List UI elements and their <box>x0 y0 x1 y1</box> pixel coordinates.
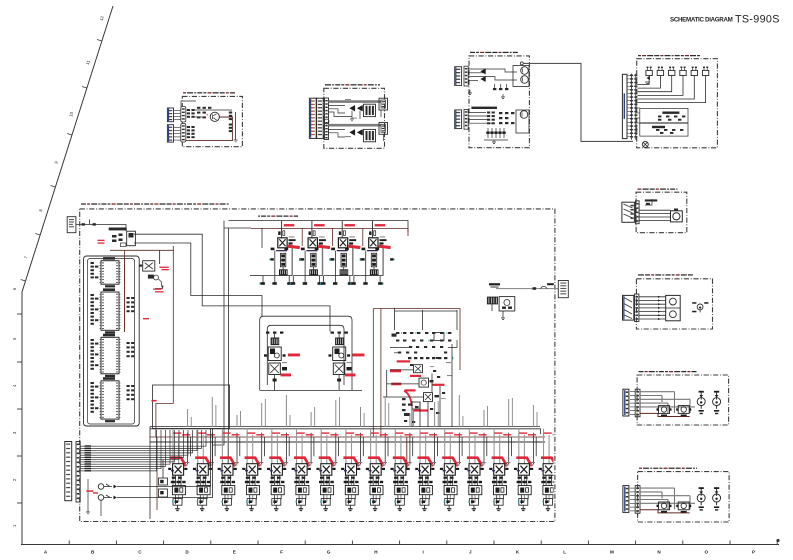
fan wires <box>639 199 670 220</box>
extra comps first bank cell <box>159 460 168 497</box>
transistor pair CNAB <box>676 502 691 513</box>
output caps group B <box>229 124 232 133</box>
block key jack unit border <box>637 375 729 425</box>
red value bar 1 <box>397 360 410 362</box>
jumper arc <box>540 286 547 288</box>
svg-text:4: 4 <box>12 384 17 387</box>
inner enclosure around driver cells <box>267 325 344 385</box>
speaker box <box>666 295 681 320</box>
IC1 regulator block <box>100 257 121 287</box>
fan label resistor <box>646 203 650 205</box>
diode D303 <box>350 130 355 135</box>
red mark above enclosure <box>143 318 157 402</box>
red value bar 2 <box>390 369 401 372</box>
maroon drop to cell 10 <box>406 437 408 470</box>
wires CN201 to pins <box>174 111 181 141</box>
staircase wire from S606 <box>637 76 705 103</box>
maroon drop at mixer 2 <box>332 228 334 246</box>
maroon branch right <box>372 309 374 437</box>
red value by crystal <box>159 267 168 271</box>
wire from CN101 <box>76 225 126 232</box>
switch S603 <box>669 67 675 76</box>
svg-text:A: A <box>44 550 48 555</box>
maroon branch to left ICs <box>124 250 126 332</box>
cluster drop wires <box>420 344 452 427</box>
connector CN301 double <box>309 98 323 138</box>
mid resistor row <box>408 357 447 359</box>
wires CN601 to connector <box>627 75 630 137</box>
mixer-amp cell 4 <box>350 221 394 285</box>
transformer T301 <box>364 104 376 116</box>
IC2 CPU block <box>100 288 121 333</box>
maroon branch mid <box>156 246 173 437</box>
resistor on wire 2 <box>93 223 96 225</box>
svg-text:9: 9 <box>53 160 59 164</box>
svg-text:P: P <box>752 550 755 555</box>
crystal X1 <box>140 261 155 271</box>
connector CN101 box <box>67 217 76 233</box>
capacitor pairs right of IC2 <box>127 297 135 312</box>
diode D301 <box>350 105 355 110</box>
gray power bus upper <box>329 100 382 103</box>
diode at first switch <box>645 76 650 84</box>
bottom ruler line <box>21 544 779 546</box>
switch unit header <box>638 55 700 56</box>
maroon output loop <box>186 117 232 141</box>
encoder box 2 <box>640 123 688 136</box>
phone jack CN9A <box>697 391 705 414</box>
band-pass filter cell 7 <box>316 432 338 510</box>
label bar TCXO <box>109 228 127 231</box>
band-pass filter cell 1 <box>168 432 190 510</box>
svg-text:C: C <box>138 550 142 555</box>
pin strip CN92 <box>635 389 640 417</box>
red marks near switches <box>86 490 98 493</box>
resistor on wire <box>82 223 85 225</box>
bank gray riser rails <box>173 429 544 443</box>
switch S1 <box>98 484 117 490</box>
maroon rail through ICs <box>124 259 126 333</box>
junction enclosure box <box>153 385 230 429</box>
wire gray bus from DDS to bank <box>134 234 330 331</box>
pin array lower <box>181 124 186 143</box>
enclosure around driver cells <box>260 316 352 390</box>
capacitor pairs right of IC3 <box>127 342 135 357</box>
connector CN91 <box>623 389 629 416</box>
colored specks in cap cluster <box>201 109 208 115</box>
switch S602 <box>657 67 663 76</box>
staircase wire from S603 <box>637 76 671 92</box>
transistor Q near crystal <box>148 275 162 286</box>
phone jack CNAA <box>697 487 705 510</box>
maroon bus lower <box>110 249 174 251</box>
band-pass filter cell 14 <box>489 432 511 510</box>
switch S604 <box>680 67 686 76</box>
mixer-amp cell 3 <box>320 221 364 285</box>
svg-text:F: F <box>280 550 283 555</box>
hatch ticks CNA <box>630 488 635 511</box>
bank riser wires from mid section <box>188 392 562 427</box>
pin strip CN801 <box>635 294 639 322</box>
speaker wires with arrows <box>639 296 666 320</box>
maroon drop A <box>159 250 161 264</box>
driver cells bottom bus <box>260 389 362 391</box>
lower comps of cluster <box>402 398 420 416</box>
wire vertical rail A <box>212 221 224 445</box>
svg-text:2: 2 <box>12 478 17 481</box>
connector CN303 right <box>379 123 388 135</box>
wire bank top bus 2 <box>150 429 541 434</box>
connector CN601 tall <box>622 74 627 138</box>
node dot <box>162 286 164 288</box>
transistor Q13 <box>424 393 440 402</box>
antenna feed sub-circuit transformer <box>487 297 498 305</box>
external connector CN apex <box>558 281 568 298</box>
wire to external connector <box>496 288 558 290</box>
wires into cluster <box>383 370 424 397</box>
band-pass filter cell 12 <box>440 432 462 510</box>
staircase wire from S605 <box>637 76 694 100</box>
black label bar display <box>471 107 497 109</box>
IC4 logic block <box>100 377 121 422</box>
key jack unit header <box>639 371 697 372</box>
pin strip by CN5 <box>76 442 80 503</box>
svg-text:3: 3 <box>12 431 17 434</box>
logic comps CN402 <box>499 112 514 124</box>
inner enclosure rail <box>88 259 135 425</box>
red value bar 3 <box>410 375 421 377</box>
maroon bus upper <box>251 228 408 236</box>
paper edge diagonal ruler line <box>22 6 113 545</box>
bank left feeder wires <box>150 427 157 520</box>
staircase wires to encoder boxes <box>637 108 639 123</box>
svg-text:K: K <box>516 550 520 555</box>
antenna relay box <box>499 297 515 311</box>
wire bank bus 3 <box>150 441 545 443</box>
encoder box 1 <box>640 108 688 122</box>
maroon drop at mixer 1 <box>301 228 303 246</box>
wires CN401 fan <box>468 69 517 80</box>
svg-text:M: M <box>610 550 614 555</box>
fan unit header <box>638 189 678 190</box>
resistor column left of IC4 <box>91 382 99 413</box>
diode D302 <box>358 105 363 110</box>
mixer row input stub wires <box>250 228 263 276</box>
maroon drop at mixer 3 <box>362 228 364 246</box>
band-pass filter cell 2 <box>193 432 215 510</box>
svg-text:TS-990S: TS-990S <box>735 13 780 25</box>
label bars above wire <box>489 283 554 287</box>
pin strip CN401 <box>464 66 468 86</box>
resistor column left of IC1 <box>91 262 99 278</box>
signal wires upper <box>329 106 353 117</box>
red value marks by TCXO <box>98 240 105 244</box>
switch S605 <box>691 67 697 76</box>
connector CN801 <box>623 295 634 320</box>
svg-text:1: 1 <box>12 524 17 527</box>
sub-circuit stubs <box>492 304 505 319</box>
maroon horizontal mid-right <box>373 309 460 370</box>
bottom ruler end dot <box>776 539 779 542</box>
band-pass filter cell 4 <box>242 432 264 510</box>
IC3 logic block <box>100 334 121 377</box>
wire vertical rail B <box>228 228 230 470</box>
cap grid center <box>197 107 211 119</box>
staircase wire from S604 <box>637 76 683 96</box>
control cluster top wires <box>395 308 458 330</box>
svg-text:B: B <box>91 550 95 555</box>
output caps group A <box>229 112 232 121</box>
wire gray bus 2 <box>134 243 262 316</box>
block fan unit border <box>636 192 687 233</box>
svg-text:11: 11 <box>85 59 91 65</box>
maroon wire CN9 <box>640 413 690 416</box>
main unit header label <box>81 203 229 204</box>
gray wire fan CN9 <box>640 392 695 413</box>
diode D304 <box>358 130 363 135</box>
resistor column left of IC2 <box>91 294 99 325</box>
red value bar 6 <box>405 389 416 391</box>
wire stub <box>155 286 163 289</box>
band-pass filter cell 15 <box>514 432 536 510</box>
wire top bus of mixer row <box>229 221 409 232</box>
capacitor pairs right of IC4 <box>127 385 135 400</box>
node out circle <box>520 62 523 65</box>
connector CN401 <box>455 67 462 86</box>
red value bar 5 <box>432 384 444 386</box>
hatch ticks CN9 <box>630 392 635 415</box>
relay driver cell 2 <box>329 332 365 388</box>
band-pass filter cell 8 <box>341 432 363 510</box>
cluster extra wires <box>390 340 457 427</box>
ground stubs under bank <box>175 505 550 511</box>
cluster gray label specks <box>430 362 452 399</box>
diode D402 <box>481 76 485 81</box>
svg-text:7: 7 <box>23 255 29 259</box>
svg-text:8: 8 <box>38 208 44 212</box>
block RX antenna unit border <box>182 96 242 146</box>
band-pass filter cell 13 <box>465 432 487 510</box>
pin strip CN301 <box>324 98 329 140</box>
encoder label bar 1 <box>662 112 679 114</box>
bus stubs to CN302 <box>381 110 384 141</box>
svg-text:10: 10 <box>68 111 74 118</box>
node tick <box>89 220 91 225</box>
wires to amp <box>181 101 232 117</box>
gray wire fan CNA <box>640 488 695 509</box>
red value bar 4 <box>391 383 401 386</box>
gray label specks B2 <box>345 99 357 137</box>
red value bar 7 <box>414 409 429 411</box>
connector CN402 <box>455 110 462 129</box>
band-pass filter cell 3 <box>218 432 240 510</box>
ground rail right <box>234 112 238 142</box>
transistor Q11 <box>414 365 423 373</box>
maroon rail right <box>380 309 382 437</box>
ferrite bead ladder <box>80 445 96 471</box>
acc jack unit header <box>639 468 697 469</box>
svg-text:12: 12 <box>99 15 105 22</box>
mixer-amp cell 2 <box>290 221 334 285</box>
pilot lamp <box>642 141 648 147</box>
pin array upper <box>181 107 186 123</box>
connector CN202 <box>167 125 173 142</box>
staircase wire from S602 <box>637 76 660 89</box>
svg-text:J: J <box>469 550 472 555</box>
transformer T302 <box>364 129 376 141</box>
svg-text:D: D <box>185 550 189 555</box>
phone jack CN9B <box>713 391 721 414</box>
resistor column left of IC3 <box>91 339 99 370</box>
pin strip CNA2 <box>635 486 640 514</box>
switch S601 <box>646 67 652 76</box>
switch S2 <box>98 495 117 501</box>
red value marks <box>153 289 163 293</box>
cluster extra comps <box>398 346 447 423</box>
block display unit border <box>469 56 529 148</box>
staircase wire from S601 <box>637 76 649 85</box>
input filter caps upper <box>187 109 195 118</box>
wire to switch unit <box>523 63 633 141</box>
fan-out wires to enclosure <box>96 430 206 471</box>
connector CN5 bottom-left <box>65 442 72 501</box>
svg-text:N: N <box>657 550 661 555</box>
transistor pair CN9A <box>657 406 672 417</box>
red curved wire <box>404 391 412 406</box>
display unit header <box>470 52 518 53</box>
band-pass filter cell 10 <box>391 432 413 510</box>
block speaker unit border <box>636 279 712 329</box>
svg-text:6: 6 <box>12 287 17 290</box>
control unit header <box>325 84 380 85</box>
ground stubs below switches <box>86 479 101 516</box>
band-pass filter cell 5 <box>267 432 289 510</box>
svg-text:E: E <box>233 550 236 555</box>
encoder label bar 2 <box>652 126 665 128</box>
wire bus under mixer row <box>224 227 251 229</box>
teal caps in cluster <box>401 332 447 341</box>
connector CN201 <box>167 108 173 122</box>
headphone symbol <box>692 302 708 312</box>
transistor pair CN9B <box>676 406 691 417</box>
connector CNA1 <box>623 486 629 513</box>
wires CN402 fan <box>468 112 492 123</box>
switch S606 <box>702 67 708 76</box>
mixer-amp cell 1 <box>260 221 304 285</box>
control cluster component grid <box>392 332 452 342</box>
backlight transistor Q401 <box>513 66 529 87</box>
fan label bar <box>645 199 658 201</box>
connector CN302 right <box>379 98 388 110</box>
resistor pack CN402 <box>487 112 495 125</box>
comb capacitor row <box>486 128 505 138</box>
connector CN701 <box>622 202 635 222</box>
speaker unit header <box>638 274 693 275</box>
svg-text:I: I <box>422 550 423 555</box>
block control unit border <box>324 88 385 148</box>
transistor pair CNAA <box>657 502 672 513</box>
ground CN401 area <box>468 90 505 99</box>
teal cap mid row <box>452 357 453 359</box>
switch wires <box>117 429 213 498</box>
gray power bus lower <box>329 124 382 127</box>
signal wires lower <box>329 130 346 138</box>
cap row under wires <box>493 84 508 90</box>
relay driver cell 1 <box>264 332 300 388</box>
fan motor M701 <box>671 209 683 222</box>
svg-text:G: G <box>327 550 331 555</box>
maroon bank bus <box>150 436 545 438</box>
phone jack CNAB <box>713 487 721 510</box>
block acc jack unit border <box>638 472 730 522</box>
driver transistor Q402 <box>516 110 529 133</box>
pin ladder CN601 <box>630 74 637 140</box>
block switch unit border <box>637 59 718 148</box>
band-pass filter cell 11 <box>415 432 437 510</box>
diode D401 <box>481 69 485 74</box>
header label small right <box>258 216 298 217</box>
RF amp transistor Q201 <box>210 112 219 121</box>
driver cell drops <box>275 387 340 390</box>
pin strip CN701 <box>636 201 640 224</box>
shield enclosure around IC group <box>84 256 140 426</box>
ferrite bead on wire <box>533 287 537 290</box>
svg-text:O: O <box>705 550 709 555</box>
band-pass filter cell 16 <box>539 432 561 510</box>
band-pass filter cell 9 <box>366 432 388 510</box>
diode drop stubs <box>350 111 360 121</box>
RX antenna block header <box>183 92 235 93</box>
TCXO oscillator cluster <box>112 231 135 246</box>
pin strip CN402 <box>464 109 468 129</box>
ground comb <box>484 140 508 144</box>
transistor Q12 <box>419 378 434 387</box>
input filter caps lower <box>187 126 195 138</box>
svg-text:SCHEMATIC DIAGRAM: SCHEMATIC DIAGRAM <box>670 16 733 23</box>
main TX-RX unit border <box>80 209 555 522</box>
svg-text:5: 5 <box>12 337 17 340</box>
svg-text:L: L <box>563 550 566 555</box>
maroon wire CNA <box>640 510 690 513</box>
wire bank top bus <box>150 426 540 428</box>
band-pass filter cell 6 <box>292 432 314 510</box>
svg-text:H: H <box>374 550 378 555</box>
